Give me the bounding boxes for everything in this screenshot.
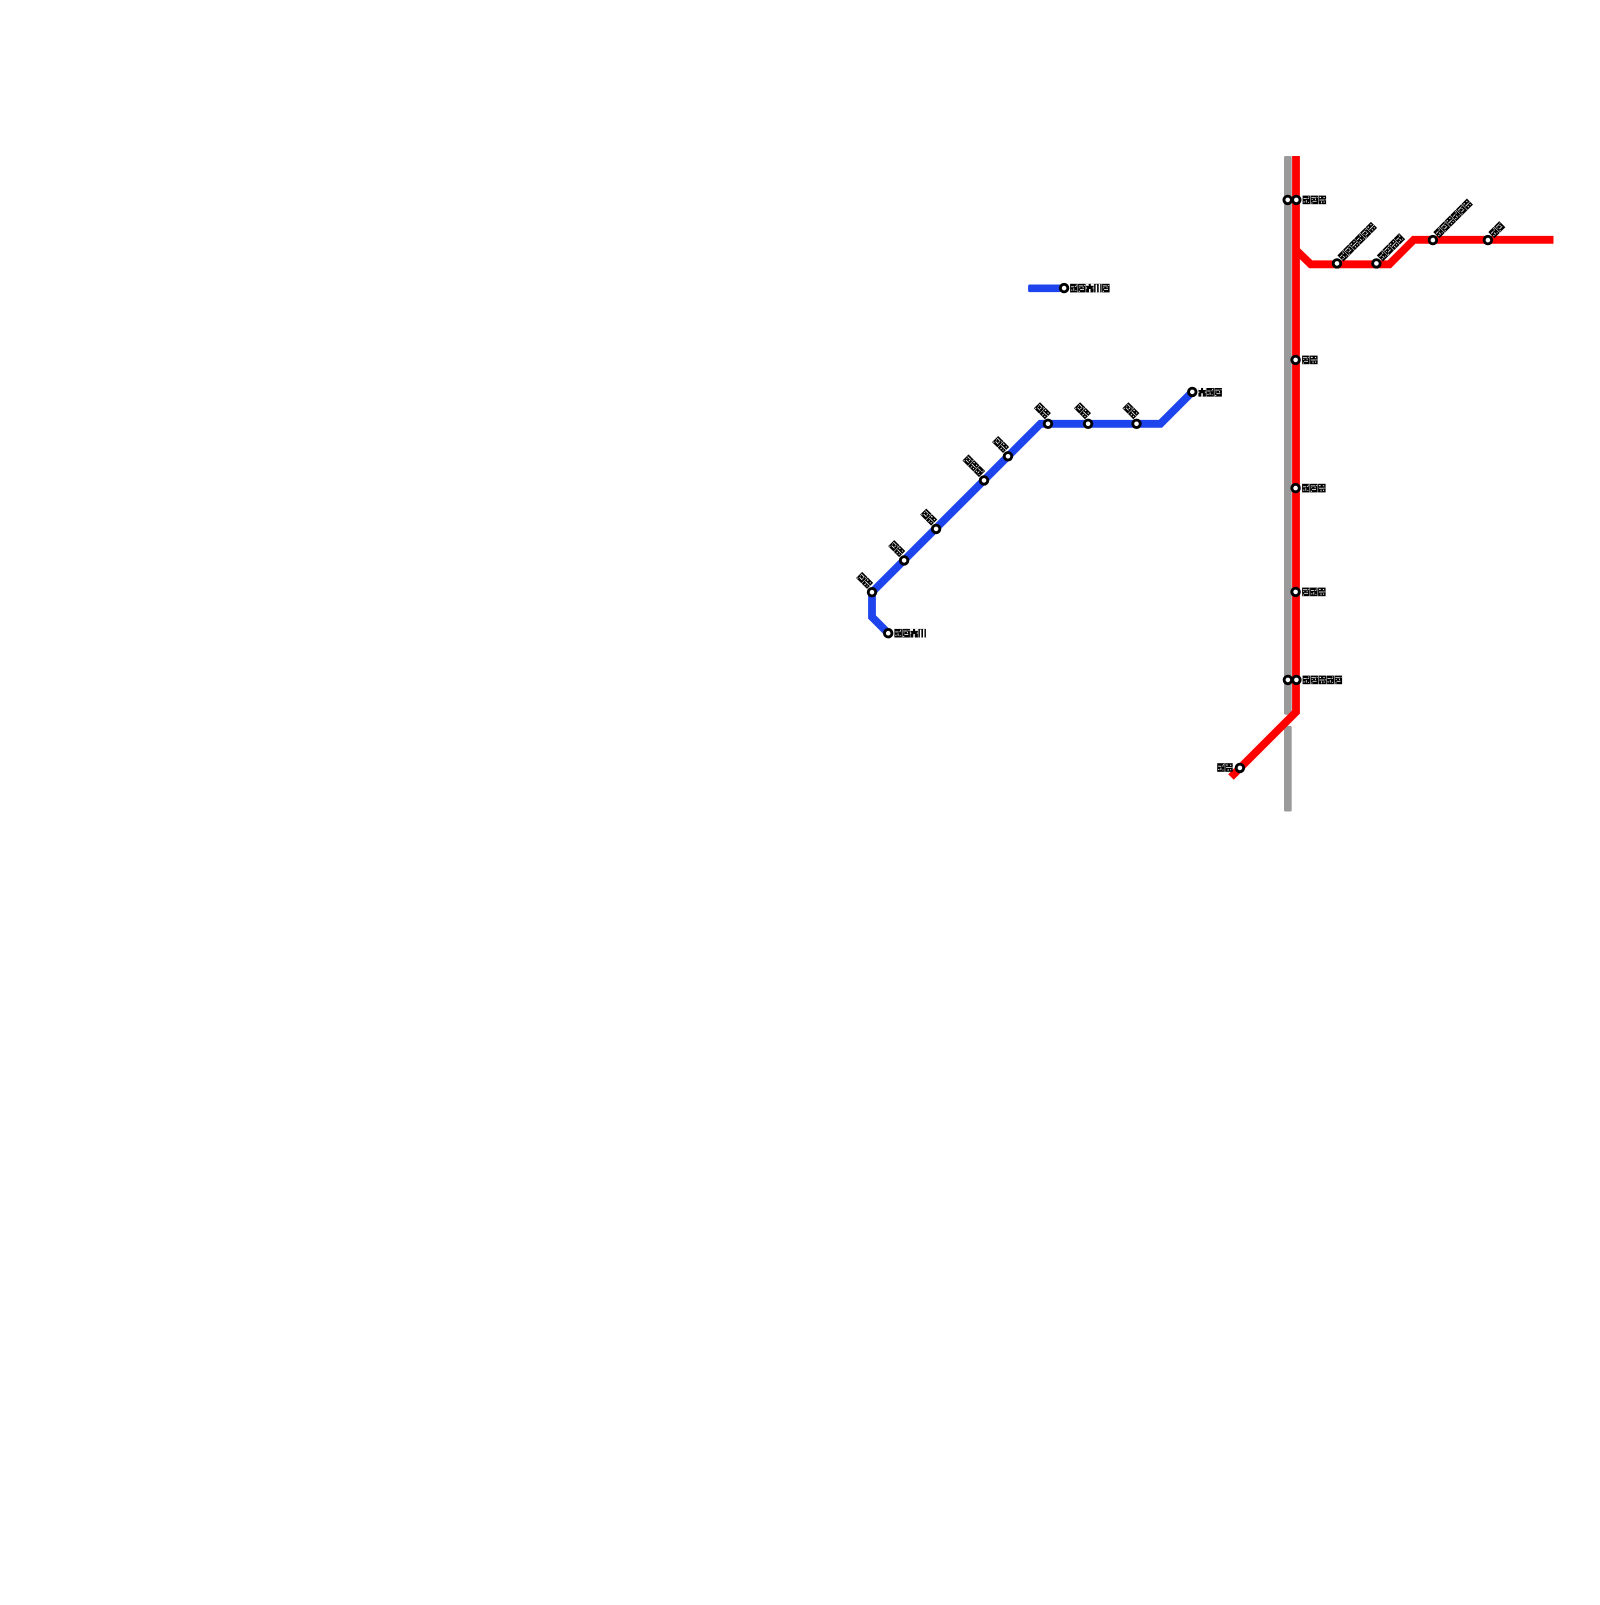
station Nishimuta [1292,484,1300,492]
station Nishitetsu-Okawa [884,629,892,637]
station Kurume-Koko-mae [1333,260,1341,268]
gray line: Kyushu Shinkansen (lower segment) [1284,726,1292,812]
station Setaka [1236,764,1244,772]
station Mii [1484,236,1492,244]
legend label: Nishitetsu Okawa line [1070,284,1110,293]
gray line: Kyushu Shinkansen (upper segment) [1284,156,1292,715]
station Enokizu [932,525,940,533]
station Sakemi [868,588,876,596]
label Nishitetsu-Okawa [894,629,926,638]
label Ozenji [1198,388,1222,397]
station Minami-Kurume [1373,260,1381,268]
label Enokizu (rotated) [920,509,937,526]
station Oawa [1133,420,1141,428]
station Chikugo-Funagoya (shinkansen) [1284,676,1292,684]
label Yokomizo (rotated) [1074,402,1091,419]
label Kurume-Koko-mae (rotated) [1337,222,1377,262]
label Kurume [1303,196,1327,205]
label Kurume-Daigaku-mae (rotated) [1433,199,1473,239]
label Mitsumata (rotated) [888,540,905,557]
station Ozenji [1189,388,1197,396]
label Nishimuta [1302,484,1326,493]
red line: JR Kyudai main line branch [1296,240,1554,264]
legend: blue line sample bar [1028,285,1061,293]
label Hainuzuka [1302,588,1326,597]
label Ejima (rotated) [992,436,1009,453]
label Sakemi (rotated) [856,572,873,589]
station Kurume-Daigaku-mae [1429,236,1437,244]
label Mii (rotated) [1488,221,1505,238]
station Ejima [1004,453,1012,461]
label Hachiin (rotated) [1034,402,1051,419]
blue line: Nishitetsu Okawa line [872,392,1192,633]
label Araki [1302,356,1318,365]
station Aokijima [980,477,988,485]
station Kurume (JR) [1293,196,1301,204]
station Kurume (shinkansen) [1284,196,1292,204]
station Hachiin [1044,420,1052,428]
station Araki [1292,356,1300,364]
station Chikugo-Funagoya (JR) [1293,676,1301,684]
red line: JR Kagoshima main line [1231,156,1296,777]
label Oawa (rotated) [1122,402,1139,419]
station Hainuzuka [1292,588,1300,596]
station Yokomizo [1084,420,1092,428]
label Aokijima (rotated) [962,454,985,477]
label Minami-Kurume (rotated) [1377,233,1405,261]
station Mitsumata [900,557,908,565]
label Setaka [1217,763,1233,772]
legend station circle [1060,284,1068,292]
label Chikugo-Funagoya [1303,676,1343,685]
